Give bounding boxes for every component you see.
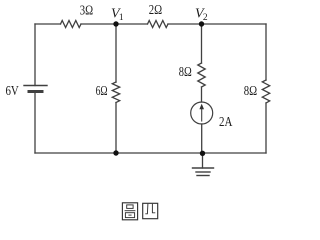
resistor R 6ohm xyxy=(112,82,119,103)
resistor R 2ohm xyxy=(148,21,169,28)
wire top middle segment V1 to 2ohm xyxy=(81,23,148,25)
wire top right segment xyxy=(168,23,266,25)
current source I1 arrow xyxy=(199,104,204,121)
wire 6ohm branch upper xyxy=(115,24,117,82)
label 2ohm xyxy=(149,3,162,18)
resistor R 8ohm middle xyxy=(198,63,205,87)
svg-text:6Ω: 6Ω xyxy=(96,84,108,99)
label node V1 xyxy=(111,7,124,24)
node bottom junction dot at ground xyxy=(200,151,205,156)
label 6V source xyxy=(6,84,19,99)
label 6ohm xyxy=(96,84,108,99)
svg-text:6V: 6V xyxy=(6,84,19,99)
resistor R 3ohm xyxy=(61,21,82,28)
caption figure four char TU xyxy=(122,203,137,220)
wire top-left segment xyxy=(35,23,61,25)
svg-text:2Ω: 2Ω xyxy=(149,3,162,18)
node bottom junction dot at 6ohm xyxy=(113,150,118,155)
svg-text:2: 2 xyxy=(203,13,208,23)
wire left rail lower xyxy=(34,92,36,154)
wire V2 branch upper xyxy=(201,24,203,63)
wire current source to bottom rail xyxy=(201,124,203,153)
battery V1 6V short plate xyxy=(29,90,42,93)
svg-text:8Ω: 8Ω xyxy=(244,84,257,99)
caption figure four char SI xyxy=(143,203,158,218)
svg-text:3Ω: 3Ω xyxy=(80,4,93,19)
wire right rail lower xyxy=(265,103,267,153)
node V1 junction dot xyxy=(113,21,118,26)
label 3ohm xyxy=(80,4,93,19)
svg-text:2A: 2A xyxy=(219,115,233,130)
current source I1 2A circle xyxy=(191,102,213,124)
label 8ohm right xyxy=(244,84,257,99)
svg-text:1: 1 xyxy=(119,13,124,23)
wire 8ohm to current source xyxy=(201,87,203,102)
label 8ohm middle xyxy=(179,65,192,80)
label 2A current xyxy=(219,115,233,130)
wire left rail upper xyxy=(34,24,36,86)
wire 6ohm branch lower xyxy=(115,103,117,154)
battery V1 6V long plate xyxy=(24,85,47,87)
wire right rail upper xyxy=(265,24,267,80)
ground symbol xyxy=(193,168,214,176)
wire ground stem xyxy=(202,153,204,168)
node V2 junction dot xyxy=(199,21,204,26)
label node V2 xyxy=(195,7,208,24)
wire bottom rail xyxy=(35,152,266,154)
svg-text:8Ω: 8Ω xyxy=(179,65,192,80)
resistor R 8ohm right xyxy=(262,80,269,103)
